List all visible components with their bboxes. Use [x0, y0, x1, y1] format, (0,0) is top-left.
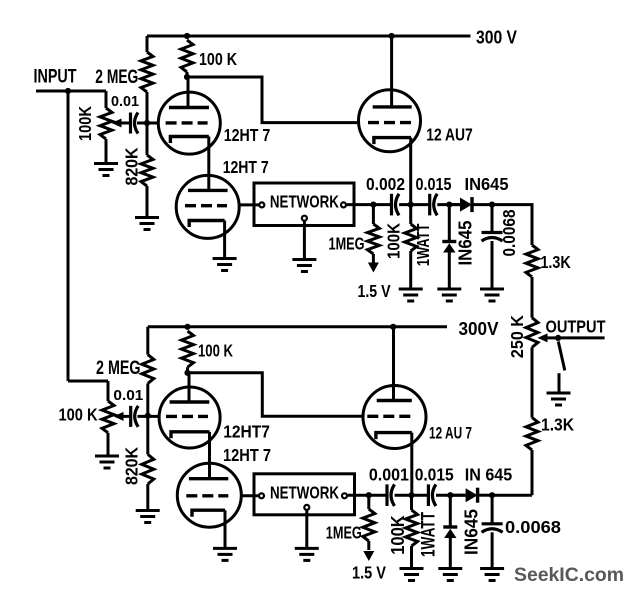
capacitor 0.0068 (top) [491, 205, 494, 233]
svg-text:2 MEG: 2 MEG [95, 67, 138, 88]
wire 300V supply rail (bottom channel) [148, 325, 447, 328]
node bottom rail / 12AU7 plate [390, 324, 396, 330]
wire 1.3K to 250K pot [531, 277, 534, 318]
svg-text:0.002: 0.002 [366, 175, 405, 194]
diode IN645 shunt (bottom) [449, 495, 452, 527]
wire input bus to bottom pot [68, 380, 108, 383]
svg-text:100K: 100K [76, 105, 95, 141]
capacitor 0.015 (bottom) [428, 484, 436, 506]
node input junction [65, 88, 71, 94]
svg-text:12HT7: 12HT7 [223, 422, 270, 442]
resistor 1.3K upper [526, 245, 538, 277]
wire switch to ground stub [558, 373, 561, 392]
wire 0.001 to 0.015 through junction B (bottom) [395, 494, 428, 497]
diode IN645 series (top) [449, 203, 460, 206]
tube V6 12AU7 (bottom channel) [392, 327, 395, 401]
svg-text:0.015: 0.015 [415, 466, 454, 485]
svg-text:0.0068: 0.0068 [505, 518, 561, 537]
ground (below shunt diode top) [437, 289, 461, 301]
terminal network bottom (top) [302, 216, 307, 221]
ground (cathode V5 bottom) [213, 548, 237, 560]
wire network bottom terminal to ground (bottom) [305, 511, 308, 548]
svg-text:300 V: 300 V [476, 27, 518, 48]
diode IN645 shunt (top) [448, 205, 451, 242]
tube V4 12HT7 first triode (bottom channel) [188, 373, 191, 402]
terminal network bottom (bottom) [304, 505, 309, 510]
tube V5 12HT7 second triode (bottom channel) [177, 463, 241, 527]
svg-text:0.01: 0.01 [113, 387, 143, 404]
wire cathode V1 to plate V2 (top) [207, 137, 210, 191]
resistor 100K 1WATT (top) [409, 205, 412, 224]
svg-text:820K: 820K [122, 447, 142, 485]
resistor 100 K plate load (top channel) [181, 40, 193, 72]
svg-text:IN645: IN645 [455, 221, 476, 266]
node row junction A (top) [370, 202, 376, 208]
capacitor 0.01 (top channel) [131, 113, 139, 134]
bias arrow to 1.5 V (bottom) [363, 551, 374, 561]
terminal network right (bottom) [342, 493, 347, 498]
ground (below 0.0068 bottom) [480, 569, 504, 581]
node grid junction (top 12HT7 #1) [144, 120, 150, 126]
svg-text:12 AU7: 12 AU7 [426, 125, 473, 145]
wire cathode V4 to plate V5 (bottom) [208, 432, 211, 479]
svg-text:INPUT: INPUT [34, 67, 77, 88]
resistor 820K (bottom channel) [146, 416, 149, 455]
svg-text:IN 645: IN 645 [465, 466, 513, 485]
capacitor 0.01 (bottom channel) [131, 406, 139, 427]
svg-text:100K: 100K [385, 222, 404, 259]
resistor 2 MEG (bottom channel) [146, 327, 149, 355]
svg-text:1.5 V: 1.5 V [352, 563, 386, 583]
wire 0.015 to series diode (top) [437, 203, 460, 206]
svg-text:1WATT: 1WATT [418, 512, 439, 557]
svg-text:SeekIC.com: SeekIC.com [514, 564, 624, 586]
wire network output to row (top) [347, 203, 374, 206]
node row junction C (bottom) [489, 492, 495, 498]
svg-text:12HT 7: 12HT 7 [223, 158, 269, 177]
diode IN645 series (bottom) [450, 494, 465, 497]
svg-text:0.01: 0.01 [111, 93, 139, 110]
wire cathode bottom 12AU7 to row [410, 433, 413, 496]
potentiometer 100 K (bottom channel input) [107, 381, 110, 401]
svg-text:0.0068: 0.0068 [500, 210, 519, 257]
node top rail / 12AU7 plate [389, 33, 395, 39]
network box (top channel) [254, 183, 354, 226]
wire bottom row to divider column [492, 494, 532, 497]
svg-text:100K: 100K [388, 515, 408, 555]
node grid junction (bottom 12HT7 #1) [145, 413, 151, 419]
wire input bus down to lower channel [67, 91, 70, 381]
terminal network right (top) [341, 202, 346, 207]
wire grid lead V2 to network (top) [239, 203, 258, 206]
node row junction B (top) [408, 202, 414, 208]
tube V2 12HT7 second triode (top channel) [176, 175, 239, 238]
svg-text:2 MEG: 2 MEG [96, 358, 141, 379]
node row junction C (top) [489, 202, 495, 208]
svg-text:100 K: 100 K [199, 49, 237, 69]
node plate of 12HT7 #1 (top) [184, 74, 190, 80]
ground (network top) [292, 260, 316, 272]
wire cathode V5 down [224, 510, 227, 548]
ground (below 0.0068 top) [480, 289, 504, 301]
wire cathode 12AU7 to row (top) [409, 138, 412, 205]
capacitor 0.0068 (bottom) [491, 495, 494, 524]
wire row junction A to 0.001 (bottom) [369, 494, 386, 497]
wire plate of 12HT7 #1 to grid of 12AU7 (top) [187, 77, 359, 123]
wire 0.015 to series diode (bottom) [436, 494, 466, 497]
wire OUTPUT lead [558, 336, 605, 339]
node row junction B (bottom) [408, 492, 414, 498]
resistor 1MEG (top) [372, 205, 375, 224]
ground (below shunt diode bottom) [438, 569, 462, 581]
node row junction A (bottom) [366, 492, 372, 498]
terminal network left (top) [259, 202, 264, 207]
svg-text:1MEG: 1MEG [326, 523, 362, 542]
svg-text:NETWORK: NETWORK [270, 192, 340, 211]
svg-text:300V: 300V [459, 318, 500, 339]
wire grid lead V5 to network (bottom) [241, 494, 258, 497]
wire row junction A to 0.002 (top) [373, 203, 390, 206]
ground (network bottom) [295, 548, 319, 560]
ground (below bottom 820K) [136, 511, 160, 523]
wiper arm of 250K pot [544, 336, 558, 339]
wiper arm of top 100K pot [121, 122, 131, 125]
svg-text:NETWORK: NETWORK [270, 484, 340, 503]
svg-text:IN645: IN645 [461, 509, 482, 555]
svg-text:100 K: 100 K [198, 342, 233, 361]
tube V1 12HT7 first triode (top channel) [187, 77, 190, 108]
ground (below bottom 100K pot) [95, 456, 119, 468]
node row shunt diode junction (bottom) [447, 492, 453, 498]
wiper arm of bottom 100K pot [123, 415, 130, 418]
wire network output to row (bottom) [348, 494, 369, 497]
capacitor 0.002 (top) [392, 194, 400, 216]
capacitor 0.015 (top) [430, 194, 438, 216]
ground (output switch) [547, 393, 571, 405]
svg-text:1MEG: 1MEG [329, 235, 365, 254]
potentiometer 250 K output [526, 318, 538, 348]
resistor 1.3K lower [526, 418, 538, 450]
resistor 1MEG (bottom) [367, 495, 370, 509]
switch lever on output to ground [558, 342, 565, 371]
resistor 2 MEG (top channel) [146, 36, 149, 52]
ground (below 100K 1WATT top) [399, 289, 423, 301]
wire cap to grid node [137, 122, 158, 125]
svg-text:250 K: 250 K [508, 314, 527, 358]
node output wiper [555, 335, 561, 341]
wire 300V supply rail (top channel) [147, 35, 471, 38]
node plate of 12HT7 #1 (bottom) [184, 370, 190, 376]
terminal network left (bottom) [259, 493, 264, 498]
wire cathode V2 down [223, 221, 226, 259]
svg-text:1.3K: 1.3K [540, 252, 571, 272]
svg-text:0.001: 0.001 [369, 466, 409, 485]
resistor 100 K plate load (bottom channel) [182, 331, 194, 367]
resistor 100K 1WATT (bottom) [410, 495, 413, 510]
svg-text:1WATT: 1WATT [413, 223, 433, 266]
ground (below top 100K pot) [94, 164, 118, 176]
svg-text:OUTPUT: OUTPUT [546, 318, 606, 337]
ground (below top 820K) [135, 218, 159, 230]
svg-text:100 K: 100 K [59, 405, 98, 425]
svg-text:IN645: IN645 [465, 175, 509, 194]
wire network bottom terminal to ground (top) [303, 222, 306, 260]
svg-text:820K: 820K [122, 147, 142, 185]
wire plate of bottom 12HT7 to grid of bottom 12AU7 [188, 373, 364, 416]
bias arrow to 1.5 V (top) [372, 262, 375, 264]
svg-text:12HT 7: 12HT 7 [223, 445, 271, 465]
node row shunt diode junction (top) [446, 202, 452, 208]
wire lower 1.3K to bottom row [531, 450, 534, 495]
resistor 820K (top channel) [146, 123, 149, 155]
svg-text:0.015: 0.015 [416, 175, 452, 194]
capacitor 0.001 (bottom) [387, 484, 395, 506]
svg-text:1.3K: 1.3K [541, 415, 574, 435]
svg-text:12HT 7: 12HT 7 [224, 126, 271, 145]
wire 250K to lower 1.3K [531, 347, 534, 417]
node top rail / 100K plate resistor [184, 33, 190, 39]
wire 0.002 to 0.015 through junction B (top) [399, 203, 429, 206]
potentiometer 100K (top channel input) [105, 91, 108, 108]
ground (cathode V2 top) [213, 259, 237, 271]
network box (bottom channel) [254, 474, 355, 515]
svg-text:12 AU 7: 12 AU 7 [429, 424, 472, 442]
wire input lead [36, 90, 106, 93]
tube V3 12AU7 (top channel) [390, 36, 393, 107]
ground (below 100K 1WATT bottom) [400, 569, 424, 581]
svg-text:1.5 V: 1.5 V [358, 281, 391, 301]
node bottom rail / 100K plate resistor [184, 324, 190, 330]
wire row to output divider column (top) [492, 205, 532, 245]
wire cap to grid node (bottom) [138, 415, 160, 418]
